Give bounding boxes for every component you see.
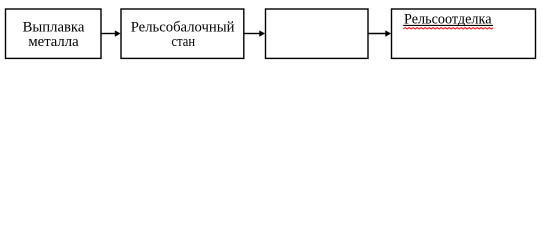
box 4 spellcheck squiggle	[403, 28, 493, 29]
box 1: Выплавка металла	[6, 9, 102, 58]
arrow 1: box1 -> box2	[101, 33, 115, 35]
arrow 2: box2 -> box3	[244, 33, 260, 35]
box 4: Рельсоотделка	[392, 9, 536, 58]
svg-text:металла: металла	[28, 34, 79, 50]
box 4 label underline	[403, 24, 493, 26]
arrow 3: box3 -> box4	[368, 33, 386, 35]
box 3: empty stage box	[266, 9, 369, 58]
svg-text:стан: стан	[172, 34, 196, 50]
box 2: Рельсобалочный стан	[121, 9, 244, 58]
